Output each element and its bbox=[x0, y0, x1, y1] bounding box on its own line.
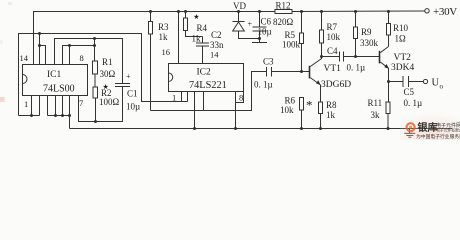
svg-text:o: o bbox=[440, 83, 444, 91]
svg-text:10k: 10k bbox=[327, 32, 341, 42]
emitter node / output bbox=[388, 68, 390, 102]
svg-text:3k: 3k bbox=[371, 110, 381, 120]
transistor VT1 3DG6D bbox=[309, 59, 352, 90]
svg-text:10k: 10k bbox=[280, 105, 294, 115]
svg-text:C5: C5 bbox=[404, 87, 415, 97]
svg-text:C1: C1 bbox=[127, 89, 138, 99]
svg-text:C2: C2 bbox=[211, 30, 222, 40]
svg-text:IC2: IC2 bbox=[197, 67, 212, 77]
capacitor C5 0.1µ bbox=[389, 76, 424, 108]
svg-text:C3: C3 bbox=[263, 57, 274, 67]
IC1 bottom pins to wire A bbox=[32, 96, 70, 116]
svg-text:VD: VD bbox=[233, 1, 246, 11]
faint left-edge watermark bits bbox=[0, 97, 5, 102]
resistor R12 820Ω (in rail) bbox=[273, 1, 294, 27]
svg-text:8: 8 bbox=[80, 53, 84, 63]
node W2/R1 bbox=[93, 37, 96, 40]
svg-text:3DK4: 3DK4 bbox=[391, 63, 414, 73]
red watermark bottom right bbox=[400, 108, 460, 140]
wire W1 (upper horizontal bus) bbox=[19, 34, 188, 116]
svg-text:R11: R11 bbox=[368, 98, 383, 108]
svg-text:C4: C4 bbox=[327, 46, 338, 56]
svg-text:*: * bbox=[306, 98, 313, 113]
svg-text:10µ: 10µ bbox=[126, 102, 140, 112]
svg-text:R12: R12 bbox=[276, 1, 291, 11]
svg-text:1k: 1k bbox=[192, 33, 202, 43]
+30V supply rail bbox=[34, 11, 425, 66]
resistor R5 100k bbox=[282, 10, 304, 72]
capacitor C1 10µ bbox=[115, 72, 140, 112]
resistor R10 1Ω bbox=[387, 10, 409, 47]
svg-text:820Ω: 820Ω bbox=[273, 17, 294, 27]
svg-text:+: + bbox=[248, 20, 253, 29]
svg-text:0. 1µ: 0. 1µ bbox=[347, 62, 366, 72]
svg-text:8: 8 bbox=[239, 93, 243, 103]
svg-text:R1: R1 bbox=[102, 57, 113, 67]
svg-text:3DG6D: 3DG6D bbox=[321, 80, 351, 90]
svg-text:74LS00: 74LS00 bbox=[43, 84, 75, 95]
drop to ground rail bbox=[69, 116, 71, 129]
svg-text:1: 1 bbox=[172, 93, 176, 103]
resistor R1 30Ω bbox=[93, 39, 116, 79]
IC2 pin3 to ground bbox=[194, 92, 196, 129]
capacitor C2 33n bbox=[196, 30, 224, 65]
IC2 pin7 to ground bbox=[235, 92, 237, 129]
ground rail bbox=[70, 128, 453, 130]
svg-text:330k: 330k bbox=[360, 38, 379, 48]
svg-text:+30V: +30V bbox=[433, 6, 457, 18]
svg-text:1: 1 bbox=[24, 99, 28, 109]
svg-text:0. 1µ: 0. 1µ bbox=[404, 98, 423, 108]
wire W3 bbox=[63, 46, 95, 66]
wire W2 bbox=[55, 39, 123, 84]
svg-text:R10: R10 bbox=[393, 23, 409, 33]
svg-text:+: + bbox=[126, 72, 131, 81]
svg-text:R9: R9 bbox=[361, 27, 372, 37]
IC2 pin5 to wire Q bbox=[203, 92, 205, 111]
capacitor C3 0.1µ bbox=[254, 57, 309, 90]
svg-text:U: U bbox=[432, 78, 440, 89]
svg-text:1Ω: 1Ω bbox=[395, 34, 407, 44]
svg-text:100Ω: 100Ω bbox=[99, 97, 120, 107]
svg-text:10µ: 10µ bbox=[258, 27, 272, 37]
+30V terminal bbox=[425, 6, 458, 18]
svg-text:C6: C6 bbox=[261, 17, 272, 27]
resistor R8 1k bbox=[306, 85, 337, 129]
svg-text:R4: R4 bbox=[197, 23, 208, 33]
svg-text:14: 14 bbox=[20, 53, 29, 63]
node on W1 bbox=[38, 32, 41, 35]
svg-text:7: 7 bbox=[79, 98, 83, 108]
svg-text:VT1: VT1 bbox=[324, 64, 342, 74]
capacitor C6 10µ bbox=[248, 10, 272, 43]
wire A bbox=[19, 115, 40, 117]
svg-text:★: ★ bbox=[193, 13, 199, 21]
svg-text:电子元件有限公司: 电子元件有限公司 bbox=[436, 127, 460, 132]
IC2 pin8 jog bbox=[236, 92, 244, 103]
svg-text:VT2: VT2 bbox=[394, 53, 412, 63]
IC1 pin10 wire bbox=[69, 46, 71, 66]
svg-text:14: 14 bbox=[210, 50, 219, 60]
svg-text:R6: R6 bbox=[285, 96, 296, 106]
IC2 74LS221 bbox=[169, 64, 244, 103]
svg-text:为中国电子行业服务商户: 为中国电子行业服务商户 bbox=[416, 133, 460, 140]
svg-text:33n: 33n bbox=[210, 40, 224, 50]
svg-text:16: 16 bbox=[162, 47, 171, 57]
IC1 pin7 + wire B bbox=[79, 87, 123, 122]
svg-text:R3: R3 bbox=[158, 22, 169, 32]
ground symbol bbox=[404, 129, 415, 138]
output terminal Uo bbox=[423, 78, 443, 91]
diode VD bbox=[233, 1, 260, 39]
resistor R4 1k bbox=[184, 10, 208, 43]
svg-text:0. 1µ: 0. 1µ bbox=[254, 80, 273, 90]
resistor R9 330k bbox=[354, 10, 379, 57]
wire Q (R3 to C3) bbox=[151, 72, 267, 111]
svg-text:银库: 银库 bbox=[418, 121, 438, 134]
resistor R7 10k bbox=[320, 10, 341, 59]
svg-text:IC1: IC1 bbox=[47, 70, 62, 80]
capacitor C4 0.1µ bbox=[322, 46, 380, 72]
resistor R6 10k bbox=[280, 96, 304, 129]
resistor R3 1k bbox=[149, 10, 170, 111]
IC2 pins 1,2 bbox=[181, 92, 183, 102]
svg-text:R8: R8 bbox=[326, 100, 337, 110]
svg-text:30Ω: 30Ω bbox=[100, 69, 116, 79]
ground bar under C6 bbox=[252, 42, 267, 44]
svg-text:74LS221: 74LS221 bbox=[189, 80, 227, 91]
IC1 pin13 wire bbox=[39, 34, 41, 66]
svg-text:R7: R7 bbox=[327, 22, 338, 32]
IC2 pin16 VCC wire bbox=[162, 10, 181, 65]
svg-text:100k: 100k bbox=[282, 40, 301, 50]
resistor R11 3k bbox=[368, 98, 391, 129]
svg-text:1k: 1k bbox=[159, 32, 169, 42]
svg-text:1k: 1k bbox=[326, 110, 336, 120]
transistor VT2 3DK4 bbox=[379, 47, 415, 73]
IC1 74LS00 bbox=[20, 53, 88, 109]
node base VT1 bbox=[300, 70, 303, 73]
resistor R2 100Ω bbox=[93, 74, 120, 122]
